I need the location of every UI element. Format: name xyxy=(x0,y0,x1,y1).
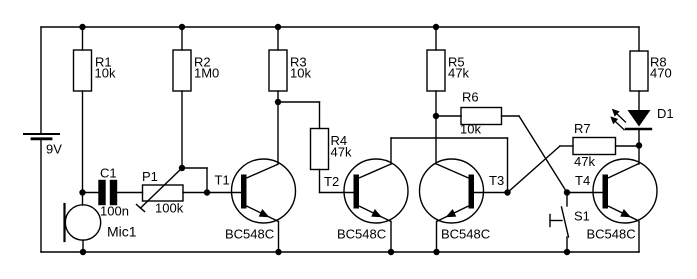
svg-text:D1: D1 xyxy=(657,106,674,121)
svg-text:47k: 47k xyxy=(331,145,352,160)
svg-text:9V: 9V xyxy=(46,142,62,157)
svg-text:R6: R6 xyxy=(462,90,479,105)
svg-text:BC548C: BC548C xyxy=(587,227,636,242)
svg-text:T4: T4 xyxy=(575,173,590,188)
svg-text:R7: R7 xyxy=(574,121,591,136)
svg-text:470: 470 xyxy=(650,66,672,81)
svg-text:BC548C: BC548C xyxy=(225,227,274,242)
svg-text:10k: 10k xyxy=(460,122,481,137)
svg-text:T2: T2 xyxy=(324,174,339,189)
svg-text:S1: S1 xyxy=(574,209,590,224)
svg-text:1M0: 1M0 xyxy=(194,66,219,81)
svg-text:100n: 100n xyxy=(100,204,129,219)
svg-text:47k: 47k xyxy=(448,66,469,81)
svg-text:47k: 47k xyxy=(574,154,595,169)
svg-text:T1: T1 xyxy=(215,173,230,188)
svg-text:10k: 10k xyxy=(290,66,311,81)
svg-text:Mic1: Mic1 xyxy=(107,224,137,240)
svg-text:BC548C: BC548C xyxy=(441,227,490,242)
svg-text:10k: 10k xyxy=(95,66,116,81)
svg-text:P1: P1 xyxy=(142,169,158,184)
svg-text:T3: T3 xyxy=(489,173,504,188)
svg-text:BC548C: BC548C xyxy=(337,227,386,242)
svg-text:C1: C1 xyxy=(100,165,117,180)
svg-text:100k: 100k xyxy=(155,201,184,216)
